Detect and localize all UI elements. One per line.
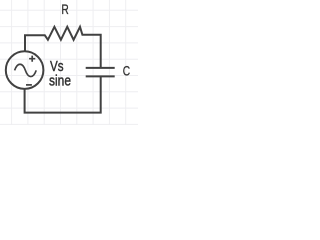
svg-text:R: R <box>61 1 68 17</box>
svg-text:C: C <box>123 63 131 79</box>
svg-text:sine: sine <box>49 72 71 89</box>
